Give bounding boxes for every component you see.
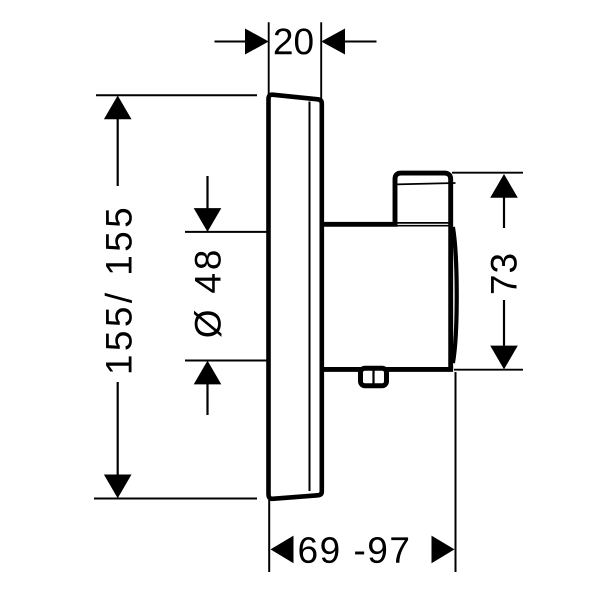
dim 69-97: right arrow: [432, 536, 455, 564]
dim d48: label: [194, 251, 221, 337]
dim d48: down arrow: [194, 208, 222, 232]
dim 73: top tick: [452, 172, 523, 174]
dim 20: right leader: [343, 41, 377, 43]
dim 155/155: bottom extension line: [94, 498, 257, 500]
dim d48: upper tail: [206, 176, 208, 210]
dim 155/155: label: [105, 209, 132, 372]
sleeve cap seam: [397, 183, 456, 184]
dim 73: down arrow: [490, 346, 518, 370]
dim d48: top tick: [185, 231, 267, 233]
dim 20: left arrow: [245, 29, 269, 55]
dim 155/155: down arrow: [104, 475, 132, 499]
dim 73: label: [491, 255, 517, 294]
dim 20: right extension line: [320, 22, 322, 100]
dim 20: right arrow: [321, 29, 345, 55]
dim 155/155: top extension line: [96, 94, 257, 96]
dim 155/155: up arrow: [104, 96, 132, 120]
cartridge dome arc: [453, 227, 457, 363]
dim d48: bottom tick: [185, 360, 267, 362]
dim 73: lower segment: [503, 300, 505, 347]
dim 20: left leader: [215, 41, 248, 43]
dim 69-97: left extension line: [268, 500, 270, 572]
bottom hex nub: [361, 368, 387, 386]
dim 69-97: left arrow: [271, 536, 294, 564]
dim 155/155: lower line segment: [117, 382, 119, 476]
sleeve base seam lower: [396, 225, 449, 227]
dim 73: upper segment: [503, 196, 505, 228]
dim 155/155: upper line segment: [117, 117, 119, 186]
valve body outline with stop-sleeve: [322, 173, 451, 369]
dim 69-97: right extension line: [455, 372, 457, 572]
dim 69-97: label: [299, 537, 408, 563]
escutcheon plate outline: [269, 95, 322, 499]
nub divider: [372, 371, 374, 385]
dim 20: label: [275, 28, 313, 54]
sleeve base seam upper: [396, 222, 449, 224]
dim d48: lower tail: [206, 382, 208, 415]
dim 73: bottom tick: [454, 369, 523, 371]
dim d48: up arrow: [194, 361, 222, 385]
plate inner face line: [309, 102, 311, 492]
dim 20: left extension line: [268, 22, 270, 95]
dim 73: up arrow: [490, 174, 518, 198]
